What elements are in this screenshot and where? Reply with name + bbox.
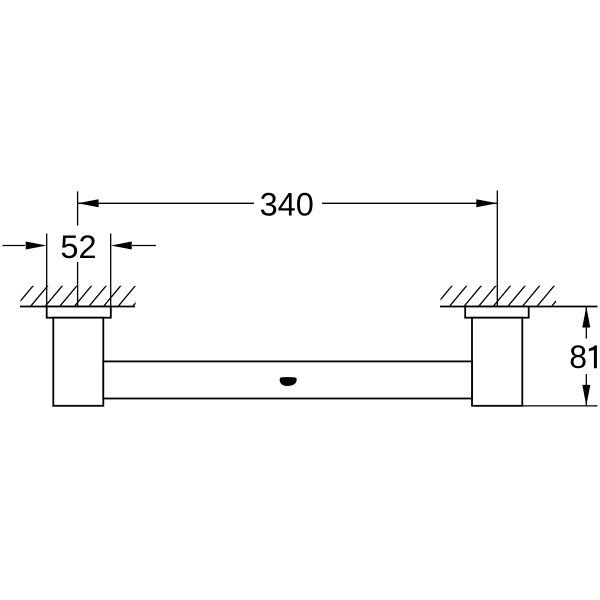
arrow tail 52 right <box>132 245 156 247</box>
bar (rail) <box>103 361 472 398</box>
wall hatching left <box>15 285 150 307</box>
arrow tail 52 left <box>3 245 26 247</box>
dimension text 81 digit 1 (drawn, no foot serif) <box>589 345 597 368</box>
extension line 81 bottom <box>523 405 598 407</box>
arrowhead 52 right (outside, pointing left) <box>111 242 132 250</box>
extension line 52 left <box>46 234 48 307</box>
extension line 52 right <box>110 234 112 307</box>
left flange <box>47 307 111 318</box>
dimension line 340 <box>78 202 498 204</box>
arrowhead 340 right <box>476 199 497 207</box>
dimension line 81 <box>585 307 587 406</box>
right post <box>472 318 522 406</box>
arrowhead 81 top (pointing up) <box>582 307 590 328</box>
extension line 340 right <box>496 191 498 307</box>
svg-text:340: 340 <box>260 186 314 222</box>
extension line 340 left <box>77 191 79 306</box>
left post <box>53 318 103 406</box>
arrowhead 81 bottom (pointing down) <box>582 385 590 406</box>
wall line left <box>20 306 135 308</box>
right flange <box>465 307 529 318</box>
arrowhead 52 left (outside, pointing right) <box>26 242 47 250</box>
wall hatching right <box>434 285 569 307</box>
logo mark on bar <box>280 377 297 386</box>
wall line right (extends to 81 dimension) <box>440 306 598 308</box>
svg-text:8: 8 <box>569 339 587 375</box>
svg-text:52: 52 <box>60 229 96 265</box>
arrowhead 340 left <box>78 199 99 207</box>
